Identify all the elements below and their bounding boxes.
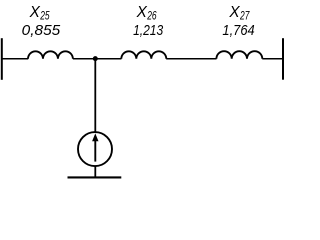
svg-text:X: X bbox=[29, 4, 41, 21]
terminal bar bottom bbox=[68, 176, 122, 178]
inductor X26 bbox=[121, 51, 166, 58]
svg-text:1,764: 1,764 bbox=[222, 22, 254, 39]
wire X27 to right bar bbox=[262, 58, 283, 60]
wire X25 to X26 bbox=[73, 58, 122, 60]
svg-text:X: X bbox=[228, 4, 240, 21]
svg-text:26: 26 bbox=[146, 11, 157, 23]
wire left bar to X25 bbox=[1, 58, 28, 60]
wire X26 to X27 bbox=[166, 58, 216, 60]
svg-text:27: 27 bbox=[239, 11, 250, 23]
svg-text:0,855: 0,855 bbox=[22, 22, 61, 39]
svg-text:25: 25 bbox=[39, 11, 50, 23]
inductor X25 bbox=[28, 51, 73, 58]
wire current source to bottom bar bbox=[94, 166, 96, 178]
svg-text:X: X bbox=[136, 4, 148, 21]
inductor X27 bbox=[216, 51, 262, 59]
terminal bar left bbox=[1, 38, 3, 80]
current source arrow bbox=[94, 140, 96, 162]
node junction bbox=[93, 56, 98, 61]
current source I1 circle bbox=[78, 132, 112, 166]
wire node to current source bbox=[94, 59, 96, 132]
terminal bar right bbox=[282, 38, 284, 79]
svg-text:1,213: 1,213 bbox=[133, 22, 164, 39]
